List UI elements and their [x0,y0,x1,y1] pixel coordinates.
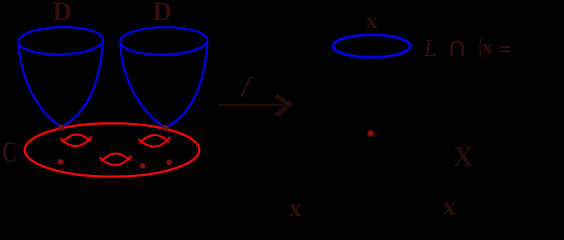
handle mark H1 lower arc [60,137,92,147]
handle mark H2 lower arc [139,137,171,147]
disk D1 left wall [19,42,61,127]
handle mark H1 upper arc [62,134,91,143]
svg-text:L: L [423,35,438,62]
fibre ellipse on right [333,35,410,58]
handle mark H3 upper arc [101,153,130,162]
intersection symbol [452,42,463,54]
disk D2 right wall [165,42,207,128]
arrow f shaft [219,104,284,106]
node point at D2 tip [162,125,168,131]
svg-text:X: X [453,142,473,173]
disk D2 left wall [120,43,165,128]
svg-text:x: x [482,35,493,59]
disk D1 right wall [61,40,103,127]
svg-text:x: x [289,193,302,219]
node point at D1 tip [58,124,64,130]
point x in X [368,130,374,136]
svg-text:D: D [53,0,72,26]
marked point on C left [58,159,64,165]
marked point on C middle [140,163,146,169]
handle mark H2 upper arc [140,135,169,144]
svg-text:x: x [366,8,378,33]
disk D1 rim ellipse [18,26,103,55]
svg-text:D: D [153,0,172,26]
disk D2 rim ellipse [120,26,208,55]
arrow f head [276,95,290,115]
svg-text:x: x [443,192,456,220]
curve C ellipse [25,123,200,176]
marked point on C right [166,160,172,166]
equals sign [500,46,511,48]
handle mark H3 lower arc [100,156,132,166]
svg-text:C: C [2,134,18,169]
